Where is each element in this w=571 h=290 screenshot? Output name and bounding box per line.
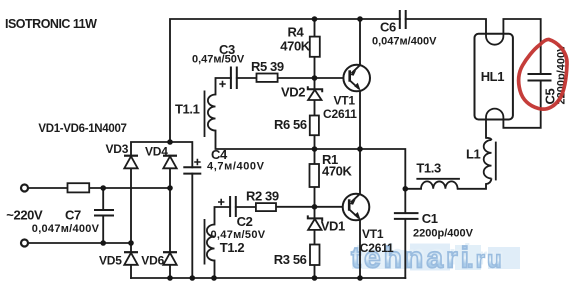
wire R1 bottom to VD1 <box>314 187 316 218</box>
svg-text:T1.2: T1.2 <box>220 240 245 255</box>
svg-text:VT1: VT1 <box>334 93 356 107</box>
capacitor C6 <box>400 10 406 29</box>
svg-text:C1: C1 <box>422 211 438 226</box>
inductor L1 <box>484 138 492 184</box>
svg-text:VD4: VD4 <box>145 145 168 159</box>
capacitor C1 <box>394 213 419 219</box>
capacitor C3 <box>219 67 237 90</box>
wire C4 bottom lead to bottom bus <box>191 174 193 278</box>
wire T1.3 left lead <box>405 188 421 190</box>
wire C1 bottom lead <box>404 219 406 278</box>
svg-text:~220V: ~220V <box>6 208 43 223</box>
inductor winding T1.3 <box>421 181 458 188</box>
wire VT1 collector <box>359 19 361 65</box>
capacitor C5 <box>528 74 552 81</box>
diode VD5 <box>124 252 138 265</box>
svg-text:R4: R4 <box>288 25 305 40</box>
resistor R1 <box>310 164 320 187</box>
wire C5 bottom to lamp bottom-right pin <box>503 81 540 128</box>
wire T1.3 right to L1 bottom <box>458 184 486 189</box>
lamp HL1 <box>475 34 513 120</box>
svg-text:C2611: C2611 <box>360 241 394 255</box>
svg-text:L1: L1 <box>466 147 481 162</box>
svg-text:VD3: VD3 <box>106 142 129 156</box>
svg-text:R2 39: R2 39 <box>246 188 279 203</box>
wire VD2 to R6 <box>314 100 316 116</box>
svg-text:C2: C2 <box>237 214 253 229</box>
node C7 bottom <box>100 240 106 246</box>
transistor VT2 bottom <box>343 194 370 221</box>
wire C3 to R5 <box>237 77 257 79</box>
wire lamp bottom-left pin to L1 <box>485 120 487 138</box>
resistor input fusible <box>68 183 90 192</box>
node bus C4 <box>190 275 196 281</box>
svg-text:VD6: VD6 <box>141 253 164 267</box>
wire VT2 emitter to bottom bus <box>359 220 361 278</box>
capacitor C7 <box>94 210 114 216</box>
wire R5 to VT1 base through node <box>278 77 344 79</box>
core T1.3 <box>416 178 460 180</box>
wire bridge column 1 bottom <box>130 265 132 278</box>
wire R4 top lead <box>314 19 316 37</box>
zener diode VD2 <box>308 86 322 100</box>
node bus R3 <box>312 275 318 281</box>
diode VD3 <box>124 156 138 169</box>
wire input line bottom <box>28 242 131 244</box>
svg-text:HL1: HL1 <box>481 69 505 84</box>
svg-text:R6 56: R6 56 <box>274 117 307 132</box>
wire R6 bottom <box>314 135 316 149</box>
wire bridge column 2 bottom <box>169 265 171 278</box>
svg-text:R5 39: R5 39 <box>251 59 284 74</box>
inductor winding T1.2 <box>207 225 215 261</box>
svg-text:T1.1: T1.1 <box>175 102 200 117</box>
svg-text:ISOTRONIC 11W: ISOTRONIC 11W <box>5 17 97 31</box>
red marker circle around C5 <box>519 39 567 109</box>
svg-text:0,47м/50V: 0,47м/50V <box>192 54 245 66</box>
node input to column1 <box>128 240 134 246</box>
wire VD1 to R3 <box>314 230 316 244</box>
core L1 <box>495 142 497 181</box>
diode VD4 <box>163 156 177 169</box>
node R4 top <box>312 16 318 22</box>
wire T1.2 top lead to C2 <box>215 207 231 225</box>
wire input line top <box>28 187 170 189</box>
svg-text:4,7м/400V: 4,7м/400V <box>207 160 265 172</box>
wire top bus left of C6 <box>170 19 400 142</box>
node VT2 base <box>312 204 318 210</box>
node bus column2 <box>167 275 173 281</box>
wire VT1 emitter down to midpoint <box>359 91 361 149</box>
resistor R4 <box>310 37 320 57</box>
watermark tehnari.ru <box>351 239 520 275</box>
resistor R5 <box>257 74 278 82</box>
wire R4 bottom to VD2 <box>314 57 316 89</box>
node input to column2 <box>167 185 173 191</box>
wire R1 top lead <box>314 149 316 164</box>
zener diode VD1 <box>308 215 322 230</box>
svg-text:C6: C6 <box>380 20 396 35</box>
wire bridge positive rail to C4 <box>131 142 192 167</box>
node dots <box>100 16 408 281</box>
svg-text:470K: 470K <box>280 39 310 54</box>
wire C2 to R2 <box>236 206 256 208</box>
wire bottom bus <box>131 277 405 279</box>
wire C7 leads <box>102 188 104 243</box>
inductor winding T1.1 <box>208 95 216 131</box>
wire R2 to VT2 base through node <box>276 206 343 208</box>
wire midpoint rail T1.1 bottom to T1.3 junction <box>216 131 406 189</box>
wire T1.2 bottom lead <box>214 261 216 279</box>
capacitor C2 <box>218 196 236 217</box>
svg-text:0,047м/400V: 0,047м/400V <box>32 223 100 235</box>
svg-text:0,047м/400V: 0,047м/400V <box>372 35 437 47</box>
wire bridge column 1 middle <box>130 169 132 253</box>
diode VD6 <box>163 252 177 265</box>
node bus T1.2 <box>211 275 217 281</box>
wire lamp top-right pin to C5 top <box>503 19 540 74</box>
wire T1.1 top lead to C3 <box>216 78 231 95</box>
terminal input top <box>21 185 28 192</box>
svg-text:R3 56: R3 56 <box>274 252 307 267</box>
svg-text:2200p/400V: 2200p/400V <box>413 228 474 240</box>
node VT1 base <box>312 75 318 81</box>
core T1.2 <box>204 219 206 265</box>
svg-text:C7: C7 <box>65 208 81 223</box>
wire R3 bottom <box>314 265 316 278</box>
resistor R6 <box>310 116 319 136</box>
svg-text:VD1: VD1 <box>321 219 345 234</box>
resistor R2 <box>256 203 276 211</box>
capacitor C4 <box>183 159 201 174</box>
core T1.1 <box>204 91 206 138</box>
svg-text:C2611: C2611 <box>323 107 357 121</box>
node C7 top <box>100 185 106 191</box>
resistor R3 <box>310 245 320 266</box>
node R6-R1 midpoint <box>312 146 318 152</box>
wire bridge column 2 middle <box>169 169 171 253</box>
svg-text:T1.3: T1.3 <box>416 161 441 176</box>
wire top bus right of C6 to lamp top-left pin <box>406 19 486 34</box>
svg-text:VD1-VD6-1N4007: VD1-VD6-1N4007 <box>38 123 126 135</box>
node midpoint emitter <box>357 146 363 152</box>
svg-text:VD2: VD2 <box>281 85 305 100</box>
node bridge plus <box>167 139 173 145</box>
wire VT2 collector <box>359 149 361 194</box>
transistor VT1 top <box>343 63 370 91</box>
svg-text:VT1: VT1 <box>362 227 384 241</box>
svg-text:.ru: .ru <box>467 247 504 274</box>
terminal input bottom <box>21 240 28 247</box>
wire C1 top lead <box>404 189 406 213</box>
node bus emitter <box>357 275 363 281</box>
node VT1 collector top <box>357 16 363 22</box>
svg-text:VD5: VD5 <box>99 253 122 267</box>
node T1.3 C1 <box>403 186 409 192</box>
svg-text:470K: 470K <box>322 164 352 179</box>
